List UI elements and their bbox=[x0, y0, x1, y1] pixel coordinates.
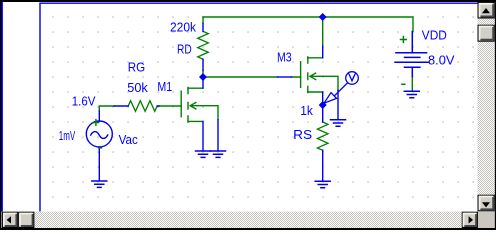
vsb down arrow button bbox=[478, 195, 494, 211]
ground M3 bulk bbox=[331, 120, 346, 126]
resistor RG bbox=[128, 101, 157, 112]
junction node at RD bottom bbox=[199, 73, 207, 81]
wire RD top stub bbox=[202, 17, 204, 24]
voltmeter probe bbox=[324, 72, 358, 104]
resistor RD pin stubs bbox=[202, 24, 204, 71]
wire RG to M1 gate bbox=[159, 105, 181, 107]
source Vac bbox=[86, 111, 112, 180]
resistor RS bbox=[317, 122, 328, 150]
transistor M3 source stub bbox=[322, 92, 324, 105]
resistor RS pin stubs bbox=[322, 105, 324, 180]
source Vac plus bbox=[93, 120, 99, 126]
transistor M1 drain stub bbox=[202, 77, 204, 88]
svg-text:M3: M3 bbox=[277, 50, 292, 65]
canvas-edge blue line bbox=[1, 2, 3, 211]
svg-text:50k: 50k bbox=[127, 80, 148, 95]
transistor M1 bulk wire bbox=[217, 120, 219, 151]
ground below Vac bbox=[92, 181, 107, 187]
transistor M3 bbox=[301, 57, 338, 93]
M3 gate pin stub bbox=[278, 76, 292, 78]
transistor M3 drain stub bbox=[322, 46, 324, 58]
transistor M1 bbox=[181, 88, 218, 123]
svg-text:RD: RD bbox=[177, 42, 192, 57]
source Vac minus bbox=[99, 147, 102, 149]
svg-text:8.0V: 8.0V bbox=[428, 52, 455, 67]
sheet border bbox=[40, 3, 478, 211]
vsb up arrow button bbox=[478, 3, 494, 19]
wire Vac to RG bbox=[99, 106, 114, 111]
svg-text:Vac: Vac bbox=[119, 132, 139, 147]
wire battery to ground bbox=[411, 77, 413, 91]
battery minus bbox=[402, 83, 405, 85]
wire M3 drain bbox=[322, 17, 324, 46]
svg-text:1mV: 1mV bbox=[59, 128, 76, 143]
resistor RD bbox=[198, 31, 209, 59]
ground M1 source bbox=[196, 151, 211, 157]
hsb right arrow button bbox=[462, 212, 477, 227]
junction node at top rail bbox=[319, 13, 327, 21]
wire RD bottom bbox=[202, 71, 204, 78]
svg-text:RG: RG bbox=[128, 59, 145, 74]
svg-text:M1: M1 bbox=[157, 79, 172, 94]
ground M1 bulk bbox=[211, 151, 226, 157]
vertical scrollbar track bbox=[478, 2, 495, 211]
grid dots bbox=[44, 10, 477, 211]
battery plus bbox=[401, 37, 407, 43]
wire junction to M3 gate bbox=[203, 76, 301, 78]
svg-text:220k: 220k bbox=[170, 19, 196, 34]
vsb thumb bbox=[478, 25, 494, 41]
transistor M3 bulk wire bbox=[337, 90, 339, 119]
transistor M1 source wire bbox=[202, 121, 204, 150]
horizontal scrollbar track bbox=[2, 212, 478, 228]
svg-text:1.6V: 1.6V bbox=[72, 94, 96, 109]
hsb left arrow button bbox=[3, 212, 18, 227]
hsb thumb bbox=[19, 212, 34, 227]
svg-text:VDD: VDD bbox=[422, 27, 447, 42]
battery VDD bbox=[395, 32, 428, 77]
ground below battery bbox=[404, 91, 419, 97]
scrollbar corner bbox=[478, 212, 495, 228]
resistor RG pin stubs bbox=[114, 105, 159, 107]
svg-text:RS: RS bbox=[293, 127, 312, 142]
wire top rail bbox=[203, 17, 413, 32]
svg-text:1k: 1k bbox=[300, 103, 313, 118]
ground below RS bbox=[315, 181, 330, 187]
junction node at M3 source bbox=[319, 101, 327, 109]
